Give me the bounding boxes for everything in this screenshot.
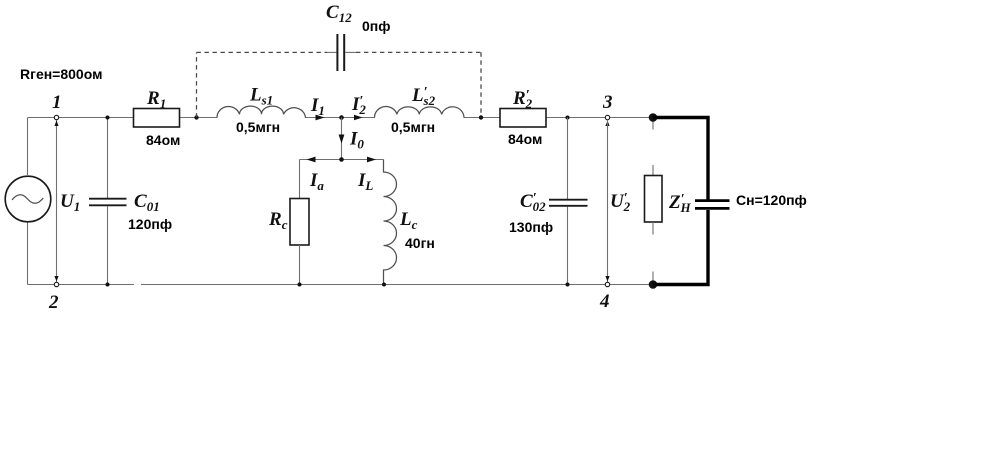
capacitor C01 [89,118,127,285]
thick wire bottom right [653,210,708,285]
svg-text:120пф: 120пф [128,216,172,232]
junction dot C02' bottom [566,283,570,287]
resistor R2' [500,109,546,128]
inductor Lc [384,160,397,285]
thick junction dot top [649,113,658,122]
wire shunt horizontal [300,159,384,161]
svg-text:Cн=120пф: Cн=120пф [736,192,807,208]
junction dot C01 bottom [106,283,110,287]
junction dot C02' top [566,116,570,120]
junction dot Rc bottom [298,283,302,287]
svg-text:R′2: R′2 [512,88,533,111]
wire I0 vertical [341,118,343,160]
thick wire top right [653,118,708,201]
dashed wire left vertical [196,52,198,117]
arrow U2 top [605,121,609,126]
arrow U1 bottom [54,276,58,281]
arrow U2 bottom [605,276,609,281]
svg-text:0пф: 0пф [362,18,391,34]
svg-text:2: 2 [48,292,59,313]
capacitor C02' [549,118,588,285]
wire node1-node2 vertical [56,120,58,283]
arrow I2' [354,115,363,121]
svg-text:84ом: 84ом [146,132,180,148]
resistor R1 [134,109,180,128]
svg-text:40гн: 40гн [405,235,435,251]
junction dot Lc bottom [382,283,386,287]
junction dot right dashed [479,115,483,119]
voltage source U1 [5,176,51,222]
svg-text:1: 1 [52,92,62,113]
svg-text:0,5мгн: 0,5мгн [391,119,435,135]
wire left source branch [27,118,29,285]
thick junction dot bottom [649,280,658,289]
resistor Rc [290,160,309,285]
arrow IL [367,157,376,163]
wire ZH stub bottom [652,272,654,282]
arrow Ia [307,157,316,163]
capacitor Cn [695,201,730,209]
junction dot C01 top [106,116,110,120]
wire ZH stub top [652,121,654,130]
inductor Ls1 [217,106,306,118]
svg-text:130пф: 130пф [509,219,553,235]
svg-text:Rген=800ом: Rген=800ом [20,66,102,82]
junction dot left dashed [194,115,198,119]
inductor Ls2' [374,107,464,118]
node 4 [605,282,609,286]
svg-text:4: 4 [599,291,610,312]
capacitor C12 [327,34,356,71]
svg-text:0,5мгн: 0,5мгн [236,119,280,135]
arrow I1 [316,115,325,121]
svg-text:3: 3 [602,92,613,113]
node 2 [54,282,58,286]
junction dot center node [339,115,344,120]
node 1 [54,115,58,119]
wire top main [28,117,654,119]
dashed wire top left [197,51,328,53]
dashed wire right vertical [480,52,482,117]
dashed wire top right [356,51,481,53]
svg-text:U′2: U′2 [610,191,631,214]
wire U2' vertical [607,120,609,283]
svg-text:84ом: 84ом [508,131,542,147]
arrow I0 [339,135,345,144]
node 3 [605,115,609,119]
impedance ZH' [645,165,663,235]
junction dot shunt [339,157,344,162]
wire bottom main [28,284,654,286]
arrow U1 top [54,121,58,126]
